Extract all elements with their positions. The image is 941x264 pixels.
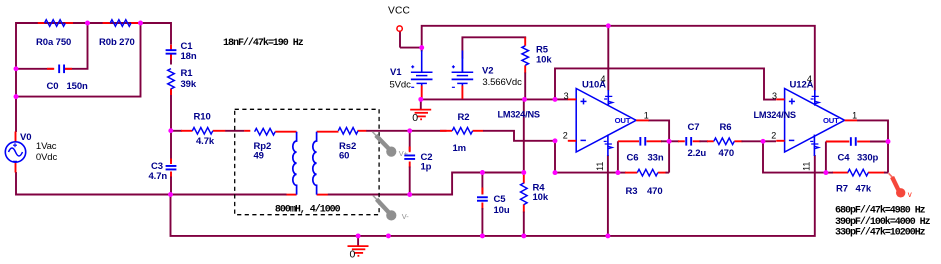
annotation filter lines bbox=[835, 204, 931, 238]
svg-text:1p: 1p bbox=[421, 162, 432, 173]
wire C0 row left bbox=[16, 68, 54, 70]
svg-text:39k: 39k bbox=[181, 79, 197, 90]
svg-text:2: 2 bbox=[771, 130, 776, 140]
svg-text:0: 0 bbox=[350, 249, 356, 261]
source V1 bbox=[390, 51, 433, 99]
svg-text:C0: C0 bbox=[47, 81, 59, 92]
node VCC-rail-U10A bbox=[606, 23, 611, 28]
resistor R0a bbox=[36, 20, 71, 49]
wire C5-R4 top rail bbox=[482, 172, 523, 174]
wire primary coil bottom lead bbox=[286, 194, 297, 196]
capacitor C0 bbox=[47, 65, 89, 93]
svg-text:C5: C5 bbox=[494, 194, 507, 205]
svg-text:330pF//47k=10200Hz: 330pF//47k=10200Hz bbox=[835, 227, 926, 239]
probe V+ bbox=[372, 132, 408, 159]
node bottom-left bbox=[168, 192, 173, 197]
svg-text:1: 1 bbox=[852, 110, 857, 120]
node C4-right bbox=[886, 139, 891, 144]
svg-text:33n: 33n bbox=[648, 152, 664, 163]
wire VCC riser and top rail bbox=[422, 26, 815, 77]
node R4-top bbox=[521, 170, 526, 175]
node bus-C5 bbox=[480, 233, 485, 238]
inductor Ls bbox=[313, 132, 317, 195]
wire ground bus bbox=[171, 155, 815, 236]
wire C4 leads bbox=[826, 141, 888, 143]
svg-text:11: 11 bbox=[802, 162, 812, 171]
transformer box bbox=[235, 109, 379, 214]
wire U10A V+ riser bbox=[607, 26, 609, 91]
probe V output bbox=[889, 173, 912, 199]
node bus-x388 bbox=[386, 233, 391, 238]
probe V- bbox=[373, 196, 409, 222]
node pin3-U10A bbox=[553, 97, 558, 102]
wire R3 leads bbox=[618, 172, 669, 174]
node R0b-right bbox=[138, 21, 143, 26]
wire C1-R1 link bbox=[170, 45, 172, 65]
svg-text:800mH, 4/1000: 800mH, 4/1000 bbox=[275, 204, 341, 216]
svg-text:49: 49 bbox=[254, 151, 264, 162]
svg-text:C4: C4 bbox=[838, 152, 851, 163]
svg-text:C7: C7 bbox=[688, 122, 700, 133]
wire secondary coil top lead bbox=[317, 131, 339, 133]
wire R6 to pin2 U12A bbox=[734, 140, 763, 142]
resistor R6 bbox=[714, 122, 735, 159]
wire R0b right lead bbox=[131, 22, 139, 24]
wire U12A out bbox=[857, 120, 888, 141]
wire pin2 stub U12A bbox=[763, 140, 776, 142]
svg-text:LM324/NS: LM324/NS bbox=[754, 110, 796, 120]
svg-text:V+: V+ bbox=[399, 149, 408, 158]
wire C2 column bbox=[409, 131, 411, 195]
wire R4 leads bbox=[523, 173, 525, 236]
svg-text:4: 4 bbox=[600, 74, 605, 84]
wire C7 leads bbox=[669, 140, 700, 142]
ground 0 top bbox=[410, 99, 431, 124]
svg-text:11: 11 bbox=[595, 162, 605, 171]
op-amp U12A bbox=[754, 74, 858, 171]
node fb-U12A-bl bbox=[823, 170, 828, 175]
svg-text:R6: R6 bbox=[720, 122, 732, 133]
source V2 bbox=[452, 51, 522, 99]
svg-text:680pF//47k=4980 Hz: 680pF//47k=4980 Hz bbox=[835, 204, 926, 216]
svg-text:3.566Vdc: 3.566Vdc bbox=[482, 77, 522, 88]
wire U12A V+ pin bbox=[814, 77, 816, 91]
wire C0 right riser bbox=[64, 23, 88, 69]
node C2-bottom bbox=[407, 192, 412, 197]
wire R3 riser bbox=[668, 141, 670, 172]
svg-text:V0: V0 bbox=[20, 132, 31, 143]
node V1-gnd bbox=[418, 97, 423, 102]
wire pin3 stub U10A bbox=[555, 98, 568, 100]
svg-text:470: 470 bbox=[647, 186, 663, 197]
wire C7-R6 link bbox=[700, 140, 714, 142]
wire C6 leads bbox=[618, 140, 669, 142]
wire pin3 link rail bbox=[555, 68, 776, 99]
resistor R10 bbox=[192, 112, 215, 147]
svg-text:V-: V- bbox=[402, 212, 409, 221]
wire R2 to pin2 U10A bbox=[473, 131, 555, 141]
ground 0 bus bbox=[348, 236, 369, 261]
capacitor C6 bbox=[627, 137, 664, 163]
svg-text:10k: 10k bbox=[533, 192, 549, 203]
svg-text:390pF//100k=4000 Hz: 390pF//100k=4000 Hz bbox=[835, 216, 931, 228]
resistor R2 bbox=[452, 112, 472, 154]
svg-text:4: 4 bbox=[807, 74, 812, 84]
svg-text:18n: 18n bbox=[181, 51, 197, 62]
node R5-bottom bbox=[522, 97, 527, 102]
capacitor C3 bbox=[149, 161, 177, 182]
wire Rs2 to C2 node bbox=[358, 130, 410, 132]
svg-text:18nF//47k=190 Hz: 18nF//47k=190 Hz bbox=[223, 37, 304, 49]
svg-text:0Vdc: 0Vdc bbox=[36, 152, 58, 163]
node bus-R4 bbox=[521, 233, 526, 238]
node C0-left bbox=[14, 66, 19, 71]
svg-text:v: v bbox=[908, 190, 912, 199]
svg-text:C6: C6 bbox=[627, 152, 639, 163]
svg-text:R7: R7 bbox=[836, 184, 848, 195]
wire C5 column bbox=[481, 173, 483, 236]
resistor Rs2 bbox=[338, 128, 358, 162]
capacitor C2 bbox=[404, 152, 432, 172]
node C5-top bbox=[480, 170, 485, 175]
wire top-left row bbox=[16, 23, 171, 97]
wire U10A V- column bbox=[607, 155, 609, 236]
svg-text:10k: 10k bbox=[536, 55, 552, 66]
wire R0a-R0b segment bbox=[65, 22, 111, 24]
wire R7 leads bbox=[826, 172, 888, 174]
node fb-U10A-bl bbox=[553, 170, 558, 175]
svg-text:5Vdc: 5Vdc bbox=[390, 80, 412, 91]
svg-text:OUT: OUT bbox=[823, 116, 839, 125]
vcc terminal bbox=[388, 5, 410, 31]
node R0a-R0b bbox=[85, 21, 90, 26]
wire Rp2 to primary coil bbox=[275, 131, 296, 133]
svg-text:V2: V2 bbox=[482, 66, 493, 77]
source V0 bbox=[5, 132, 57, 163]
wire U12A fb left bbox=[763, 141, 826, 172]
resistor R4 bbox=[521, 182, 549, 204]
node C6-right bbox=[667, 139, 672, 144]
wire V0 column bbox=[15, 97, 18, 143]
op-amp U10A bbox=[498, 74, 649, 171]
wire C4-R7 riser bbox=[887, 142, 889, 173]
svg-text:470: 470 bbox=[719, 148, 735, 159]
wire R0a left lead bbox=[38, 22, 45, 24]
svg-text:4.7k: 4.7k bbox=[196, 136, 215, 147]
svg-text:LM324/NS: LM324/NS bbox=[498, 110, 540, 120]
capacitor C4 bbox=[838, 137, 879, 163]
resistor R3 bbox=[626, 169, 663, 197]
capacitor C5 bbox=[477, 194, 510, 216]
svg-text:10u: 10u bbox=[494, 205, 510, 216]
node bus-U10A-V- bbox=[605, 233, 610, 238]
capacitor C7 bbox=[686, 122, 706, 159]
wire C3 column bbox=[170, 131, 172, 195]
svg-text:1Vac: 1Vac bbox=[36, 141, 57, 152]
svg-text:2.2u: 2.2u bbox=[688, 148, 707, 159]
svg-text:60: 60 bbox=[339, 151, 349, 162]
resistor R0b bbox=[99, 20, 135, 49]
annotation 18nF bbox=[223, 37, 304, 49]
wire transformer bottom rail right bbox=[317, 194, 410, 196]
resistor R7 bbox=[836, 169, 872, 194]
svg-text:VCC: VCC bbox=[388, 5, 410, 16]
wire R10 row bbox=[171, 130, 250, 132]
wire V2 riser bbox=[462, 37, 525, 72]
wire V0 bottom bbox=[16, 162, 171, 195]
svg-text:1m: 1m bbox=[453, 143, 467, 154]
wire R5 leads bbox=[524, 37, 526, 99]
svg-text:0: 0 bbox=[412, 112, 418, 124]
wire V1 top lead bbox=[421, 48, 423, 52]
svg-text:4.7n: 4.7n bbox=[149, 171, 168, 182]
svg-text:R0b 270: R0b 270 bbox=[99, 37, 135, 48]
node VCC-V1 junction bbox=[419, 45, 424, 50]
capacitor C1 bbox=[166, 41, 197, 62]
inductor Lp bbox=[293, 132, 297, 195]
resistor R1 bbox=[168, 68, 197, 90]
wire VCC stem bbox=[400, 31, 422, 47]
svg-text:OUT: OUT bbox=[615, 116, 631, 125]
svg-text:150n: 150n bbox=[67, 81, 89, 92]
wire U10A out bbox=[648, 120, 669, 141]
node R10-left bbox=[168, 128, 173, 133]
node pin2-U10A bbox=[553, 138, 558, 143]
node fb-U10A-br bbox=[615, 170, 620, 175]
wire U10A fb left bbox=[555, 141, 618, 173]
svg-text:R2: R2 bbox=[458, 112, 470, 123]
transformer label bbox=[275, 204, 341, 216]
node C2-top bbox=[407, 128, 412, 133]
svg-text:R1: R1 bbox=[181, 68, 194, 79]
svg-text:1: 1 bbox=[644, 110, 649, 120]
svg-text:2: 2 bbox=[563, 130, 568, 140]
wire bottom loop bbox=[16, 23, 141, 97]
node loop-left bbox=[14, 94, 19, 99]
resistor R5 bbox=[522, 45, 552, 66]
svg-text:47k: 47k bbox=[856, 184, 872, 195]
svg-text:R10: R10 bbox=[194, 112, 211, 123]
node pin2-U12A bbox=[761, 139, 766, 144]
wire ground rail bbox=[421, 98, 555, 100]
wire R4 column top bbox=[523, 99, 525, 172]
svg-text:V1: V1 bbox=[390, 67, 402, 78]
svg-text:R0a 750: R0a 750 bbox=[36, 37, 71, 48]
svg-text:330p: 330p bbox=[857, 152, 879, 163]
wire bottom rail step bbox=[410, 173, 483, 195]
wire transformer bottom rail left bbox=[171, 194, 287, 196]
resistor Rp2 bbox=[254, 128, 276, 161]
wire R1 to R10 node bbox=[170, 89, 172, 131]
wire C2 node to R2 bbox=[410, 130, 453, 132]
node bus-gnd bbox=[356, 233, 361, 238]
svg-text:R3: R3 bbox=[626, 186, 638, 197]
